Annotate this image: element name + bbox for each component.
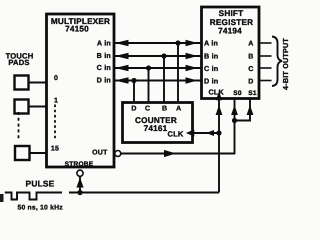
touch pad 0 xyxy=(15,76,29,90)
wire pulse line to clock vertical xyxy=(69,192,219,194)
scan mark left edge xyxy=(0,194,4,202)
wire C tap down to counter C xyxy=(148,68,150,103)
svg-text:B in: B in xyxy=(97,51,111,60)
svg-text:C in: C in xyxy=(204,64,218,73)
wire A tap down to counter A xyxy=(177,43,179,103)
strobe bubble under multiplexer xyxy=(77,170,83,176)
wire clock vertical to shift register CLK xyxy=(218,100,220,193)
counter U2 74161 block xyxy=(123,103,193,143)
wire branch to S1 xyxy=(235,100,251,121)
wire pad0 to multiplexer xyxy=(29,82,47,84)
node clock junction to counter xyxy=(216,130,221,135)
wire bus B multiplexer to shift register xyxy=(114,55,201,57)
node A tap junction xyxy=(175,40,180,45)
wire strobe vertical xyxy=(79,177,81,193)
svg-text:74150: 74150 xyxy=(65,25,89,34)
arrowhead into shift register B in xyxy=(186,53,198,59)
wire bus A multiplexer to shift register xyxy=(114,42,201,44)
output brace xyxy=(272,37,282,87)
svg-text:STROBE: STROBE xyxy=(65,161,94,168)
svg-text:SHIFT: SHIFT xyxy=(219,9,244,18)
shift register U3 74194 block xyxy=(202,7,260,99)
svg-text:15: 15 xyxy=(51,146,59,153)
arrowhead into shift register S1 xyxy=(247,105,254,115)
ellipsis dashes inside multiplexer xyxy=(54,105,56,140)
svg-text:PADS: PADS xyxy=(8,58,29,67)
touch pad 1 xyxy=(15,100,29,114)
arrowhead into multiplexer C in xyxy=(115,65,129,71)
node S0 S1 junction xyxy=(232,118,237,123)
arrowhead into multiplexer A in xyxy=(115,40,129,46)
shift register output stub B xyxy=(259,55,272,57)
wire clock branch to counter CLK xyxy=(192,132,219,134)
svg-text:C in: C in xyxy=(97,63,111,72)
svg-text:C: C xyxy=(145,106,150,113)
arrowhead into shift register C in xyxy=(186,65,198,71)
arrowhead into shift register S0 xyxy=(231,105,238,115)
wire bus D multiplexer to shift register xyxy=(114,80,201,82)
node D tap junction xyxy=(131,78,136,83)
wire D tap down to counter D xyxy=(133,81,135,103)
svg-text:A: A xyxy=(176,106,181,113)
arrowhead into shift register D in xyxy=(186,77,198,83)
wire pad15 to multiplexer xyxy=(30,152,47,154)
svg-text:D: D xyxy=(248,79,253,86)
svg-text:B in: B in xyxy=(204,52,218,61)
svg-text:4-BIT OUTPUT: 4-BIT OUTPUT xyxy=(281,38,290,90)
node strobe junction on pulse line xyxy=(77,190,82,195)
svg-text:A in: A in xyxy=(204,39,218,48)
touch pad 15 xyxy=(15,146,30,160)
arrowhead into counter CLK xyxy=(186,129,195,136)
svg-text:1: 1 xyxy=(54,98,58,105)
arrowhead mid clock branch xyxy=(206,130,214,136)
svg-text:CLK: CLK xyxy=(209,88,225,97)
svg-text:50 ns, 10 kHz: 50 ns, 10 kHz xyxy=(18,205,64,212)
svg-text:PULSE: PULSE xyxy=(26,179,55,189)
ellipsis dashes between pads xyxy=(18,112,20,139)
wire pad1 to multiplexer xyxy=(29,106,47,108)
svg-text:74161: 74161 xyxy=(144,124,168,133)
arrowhead into shift register A in xyxy=(186,40,198,46)
svg-text:0: 0 xyxy=(54,75,58,82)
node B tap junction xyxy=(161,53,166,58)
svg-text:D: D xyxy=(131,106,136,113)
arrowhead into multiplexer D in xyxy=(115,77,129,83)
svg-text:S1: S1 xyxy=(248,90,257,97)
wire bus C multiplexer to shift register xyxy=(114,67,201,69)
svg-text:C: C xyxy=(248,66,253,73)
pulse waveform xyxy=(5,193,62,200)
shift register output stub D xyxy=(259,80,272,82)
arrowhead up into strobe xyxy=(76,178,83,188)
label TOUCH PADS xyxy=(6,51,34,67)
svg-text:B: B xyxy=(162,106,167,113)
arrowhead into shift register CLK upper xyxy=(216,92,222,101)
shift register output stub A xyxy=(259,42,272,44)
svg-text:S0: S0 xyxy=(233,90,242,97)
svg-text:D in: D in xyxy=(204,77,218,86)
arrowhead into shift register CLK xyxy=(216,105,223,115)
wire OUT up to S0 xyxy=(234,100,236,155)
svg-text:74194: 74194 xyxy=(218,27,242,36)
svg-text:A in: A in xyxy=(97,39,111,48)
arrowhead into multiplexer B in xyxy=(115,53,129,59)
svg-text:B: B xyxy=(248,54,253,61)
arrowhead on OUT wire xyxy=(164,150,176,157)
shift register output stub C xyxy=(259,67,272,69)
multiplexer U1 74150 block xyxy=(47,14,115,167)
wire B tap down to counter B xyxy=(163,56,165,103)
wire OUT from multiplexer xyxy=(115,151,235,157)
svg-text:CLK: CLK xyxy=(167,130,183,139)
svg-text:A: A xyxy=(248,41,253,48)
node C tap junction xyxy=(146,65,151,70)
svg-text:OUT: OUT xyxy=(92,150,108,157)
svg-text:D in: D in xyxy=(97,76,111,85)
